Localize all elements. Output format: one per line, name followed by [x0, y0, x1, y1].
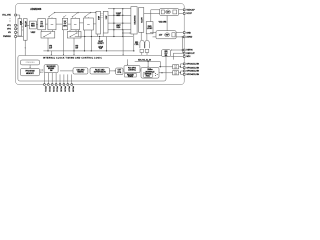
sequencer engine M2 — [44, 65, 58, 73]
wire atten to SFD — [27, 24, 29, 26]
node ellipsis — [9, 18, 12, 22]
svg-text:AGND: AGND — [186, 36, 192, 39]
osc M3 — [73, 68, 88, 74]
svg-text:REG: REG — [31, 26, 35, 28]
switch S2 — [72, 12, 79, 18]
wire regulator to pin VDDCAP — [179, 9, 184, 11]
switch box SW1 — [41, 32, 55, 39]
node V1 fan junction — [180, 66, 181, 67]
comparator A2 — [62, 18, 67, 30]
svg-text:DIV: DIV — [174, 73, 177, 75]
svg-text:WDI: WDI — [186, 56, 190, 58]
svg-text:VX1–VX5: VX1–VX5 — [2, 15, 12, 17]
wire SFD to A1 — [36, 23, 37, 25]
pin VCCP — [183, 13, 192, 16]
svg-text:CLK: CLK — [174, 72, 177, 74]
config register M0 — [21, 60, 40, 65]
wire vddcap down — [166, 16, 168, 31]
svg-text:LOGIC: LOGIC — [147, 28, 153, 30]
pdo control M6 — [124, 66, 140, 73]
svg-text:GPIO4/CLKIN: GPIO4/CLKIN — [186, 74, 199, 76]
register U7 — [131, 7, 137, 34]
svg-text:CTRL: CTRL — [135, 44, 139, 46]
pin REFOUT — [183, 52, 195, 55]
svg-text:SUPERVISION: SUPERVISION — [94, 72, 107, 74]
switch mark above C — [63, 15, 66, 17]
svg-text:SEQUENCE: SEQUENCE — [47, 66, 56, 68]
svg-text:PDO7: PDO7 — [67, 86, 69, 92]
svg-text:DIV: DIV — [174, 67, 177, 69]
wire DAC3 drop — [84, 37, 86, 51]
pin PDO2 — [48, 84, 50, 93]
wire M2 to M3 — [60, 70, 73, 72]
svg-text:OUT: OUT — [49, 47, 52, 49]
svg-text:VDD ARB: VDD ARB — [159, 20, 168, 23]
decoder V1 — [173, 65, 179, 70]
wire bidir arrows M1 — [40, 69, 44, 72]
svg-text:PDO5: PDO5 — [60, 86, 62, 92]
wire pin PWRGD — [17, 36, 24, 38]
pin GND — [183, 32, 191, 35]
watchdog W1 — [162, 50, 171, 57]
pin GPIO4 — [183, 73, 199, 76]
wire mux to atten — [22, 24, 24, 30]
svg-text:GPIO2/CLKIN: GPIO2/CLKIN — [186, 67, 199, 69]
svg-text:OUT: OUT — [99, 48, 102, 50]
reference U11 — [156, 31, 176, 39]
adc U6 — [103, 11, 108, 33]
svg-text:PDO1: PDO1 — [44, 86, 46, 92]
wire dac bus — [75, 30, 133, 37]
svg-text:PDO GPIO: PDO GPIO — [128, 67, 137, 69]
wire rail — [43, 50, 134, 52]
wire arrow current sources into logic — [142, 52, 147, 55]
svg-text:CLK: CLK — [165, 53, 168, 55]
wire SW2 drop — [73, 38, 75, 51]
driver text M6b — [125, 73, 137, 78]
pin PDO6 — [63, 84, 65, 93]
svg-text:DETECT: DETECT — [98, 43, 104, 45]
label sw1 drop — [49, 45, 52, 49]
wire to reference — [150, 32, 156, 34]
pin REFIN — [183, 49, 193, 52]
svg-text:TIMERS: TIMERS — [77, 72, 84, 74]
pin VH — [8, 32, 16, 35]
svg-text:INTERNAL CLOCK TIMING AND CONT: INTERNAL CLOCK TIMING AND CONTROL LOGIC — [43, 57, 103, 60]
pin PDO8 — [71, 84, 73, 93]
svg-text:VP4: VP4 — [7, 29, 12, 31]
register U8 — [139, 8, 144, 33]
pin PDO4 — [55, 84, 57, 93]
regulator U10 — [160, 9, 179, 16]
svg-text:ENGINE: ENGINE — [48, 68, 54, 70]
svg-text:CONTROL: CONTROL — [128, 70, 136, 72]
wire atten drop arrow — [25, 40, 26, 60]
wire sda scl — [135, 61, 161, 67]
svg-text:PDO3: PDO3 — [52, 86, 54, 92]
wire logic to current source Q2 — [146, 34, 148, 40]
svg-text:SFD: SFD — [75, 45, 78, 47]
wire reference to pin REFGND — [176, 32, 183, 34]
pin PDO5 — [59, 84, 61, 93]
driver box D2 — [145, 49, 149, 52]
wire pin VX1 to mux — [17, 15, 20, 19]
wire SW1 drop — [47, 38, 49, 51]
node M7 output junctions — [160, 66, 161, 67]
svg-text:GND: GND — [186, 32, 191, 34]
wire bus top — [108, 9, 131, 37]
dac DAC3 — [84, 18, 94, 30]
wire reference to pin REFOUT — [176, 36, 183, 38]
wire to regulator top — [151, 10, 160, 22]
wire A2 to DAC2 — [68, 23, 71, 25]
svg-text:ADM1066: ADM1066 — [30, 8, 42, 11]
wire to regulator bottom feed — [144, 12, 160, 14]
wire drop x91 — [90, 37, 92, 51]
comparator A1 — [38, 19, 46, 30]
svg-text:PDO2: PDO2 — [48, 86, 50, 92]
wire pdo stems left — [44, 73, 71, 85]
pin VX1 — [2, 14, 16, 17]
svg-text:PWRGD: PWRGD — [3, 36, 11, 38]
wire arrow into M6 — [127, 59, 128, 65]
wire DAC2 to DAC3 — [80, 22, 84, 24]
node rail junctions — [47, 50, 134, 51]
svg-text:SMBus: SMBus — [147, 69, 152, 71]
pin PDO7 — [67, 84, 69, 93]
wire pin VP1 — [17, 24, 19, 26]
mux U5 — [96, 11, 101, 34]
wire A1 to SW1 — [41, 30, 43, 32]
switch S3 — [85, 12, 92, 18]
wire pin REFIN to W1 — [171, 49, 184, 50]
pin GPIO1 — [183, 63, 199, 66]
svg-text:REFIN: REFIN — [186, 50, 193, 52]
wire U5 to U6 — [101, 13, 104, 17]
wire mux drop arrow — [99, 37, 100, 40]
wire switch bus to U5 — [55, 12, 96, 13]
wire DAC3 to U5 — [93, 23, 95, 25]
wire register drop — [133, 34, 135, 51]
wire M6 to M7 — [139, 69, 142, 71]
pin PDO1 — [44, 84, 46, 93]
svg-text:VP1: VP1 — [7, 25, 12, 27]
svg-text:CTRL: CTRL — [117, 72, 121, 74]
pin GPIO3 — [183, 70, 199, 73]
svg-text:GPIO3/CLKIN: GPIO3/CLKIN — [186, 71, 199, 73]
svg-text:CONFIG REG: CONFIG REG — [26, 62, 35, 64]
latch M5 — [116, 68, 123, 75]
wire A1 to DAC1 — [45, 23, 47, 25]
wire V1 fan — [179, 64, 184, 68]
pin VP4 — [7, 28, 16, 31]
decoder V2 — [173, 71, 179, 76]
wire pin REFOUT — [173, 36, 183, 59]
wire pin VP4 — [17, 28, 19, 30]
wire to reference lower input — [153, 36, 157, 38]
svg-text:EEPROM: EEPROM — [145, 74, 152, 76]
svg-text:PDO8: PDO8 — [71, 86, 73, 92]
svg-text:VREF: VREF — [31, 32, 36, 34]
watchdog M4 — [90, 68, 110, 74]
wire pin VH — [17, 31, 19, 33]
svg-text:OUT: OUT — [75, 47, 78, 49]
attenuator U3 — [23, 19, 27, 41]
switch S1 — [49, 12, 56, 18]
dac DAC2 — [71, 18, 80, 30]
wire V2 fan — [179, 71, 184, 74]
wire adc drop — [106, 37, 108, 51]
pin PDO3 — [51, 84, 53, 93]
wire arrow into logic x74 — [73, 51, 74, 56]
svg-text:VDDCAP: VDDCAP — [186, 9, 195, 12]
pin VREF — [3, 36, 16, 39]
dac DAC1 — [48, 18, 56, 30]
current source Q2 — [145, 40, 149, 48]
SFD U4 — [30, 21, 37, 29]
pin GPIO2 — [183, 67, 199, 70]
wire arrow into logic x51 — [51, 51, 52, 56]
input mux U2 — [18, 19, 22, 36]
wire DAC2 to SW2 — [75, 30, 77, 32]
node junctions bus — [113, 8, 123, 30]
wire regulator to pin VCCP — [179, 12, 184, 14]
pin VP1 — [7, 24, 16, 27]
logic U9 — [146, 22, 153, 34]
switch box SW2 — [67, 32, 81, 39]
program memory M1 — [21, 68, 40, 75]
svg-text:VH: VH — [8, 32, 11, 34]
driver box D1 — [140, 49, 144, 52]
wire DAC1 to SW1 — [51, 30, 53, 32]
wire arrow into register H — [122, 32, 131, 33]
label fault outputs — [98, 40, 104, 50]
wire DAC1 to A2 — [56, 23, 62, 25]
wire M7 to V1 V2 — [159, 67, 173, 73]
svg-text:ATTEN: ATTEN — [24, 21, 27, 27]
IC boundary ADM1066 — [16, 4, 185, 85]
svg-text:PDO4: PDO4 — [56, 86, 58, 92]
svg-text:SFD: SFD — [49, 45, 52, 47]
svg-text:LATCH: LATCH — [140, 17, 143, 23]
pin WDI — [183, 56, 190, 59]
wire M0 to M1 arrow — [30, 65, 31, 68]
svg-text:REFOUT: REFOUT — [186, 53, 195, 55]
svg-text:LATCH: LATCH — [98, 45, 103, 48]
label sw2 drop — [75, 45, 78, 49]
wire arrow into logic x123 — [123, 30, 124, 56]
control logic block — [18, 56, 166, 82]
smbus M7 — [141, 67, 159, 78]
svg-text:VCCP: VCCP — [186, 13, 192, 15]
wire pin WDI — [171, 56, 184, 58]
node dac bus junctions — [84, 36, 123, 37]
svg-text:GPIO1/CLKIN: GPIO1/CLKIN — [186, 64, 199, 66]
svg-text:REF: REF — [166, 35, 169, 37]
svg-text:REGISTER: REGISTER — [133, 16, 135, 26]
svg-text:FAULT: FAULT — [98, 40, 103, 43]
svg-text:CLK: CLK — [174, 66, 177, 68]
node V2 fan junction — [180, 72, 181, 73]
svg-text:PDO6: PDO6 — [64, 86, 66, 92]
pin VDDCAP — [183, 9, 195, 12]
wire A2 to SW2 — [69, 30, 71, 32]
wire latch to current sources — [140, 32, 142, 40]
svg-text:SEQ: SEQ — [135, 42, 139, 44]
current source Q1 — [140, 40, 144, 48]
svg-text:MEMORY: MEMORY — [26, 73, 35, 75]
pin AGND — [183, 36, 192, 39]
wire arrow into logic x63 — [63, 30, 64, 56]
svg-text:SEL: SEL — [165, 55, 168, 57]
svg-text:REG: REG — [117, 27, 121, 29]
label ctrl near register drop — [135, 42, 139, 46]
wire M4 arrow right — [110, 70, 116, 71]
svg-text:OUT: OUT — [118, 70, 121, 72]
